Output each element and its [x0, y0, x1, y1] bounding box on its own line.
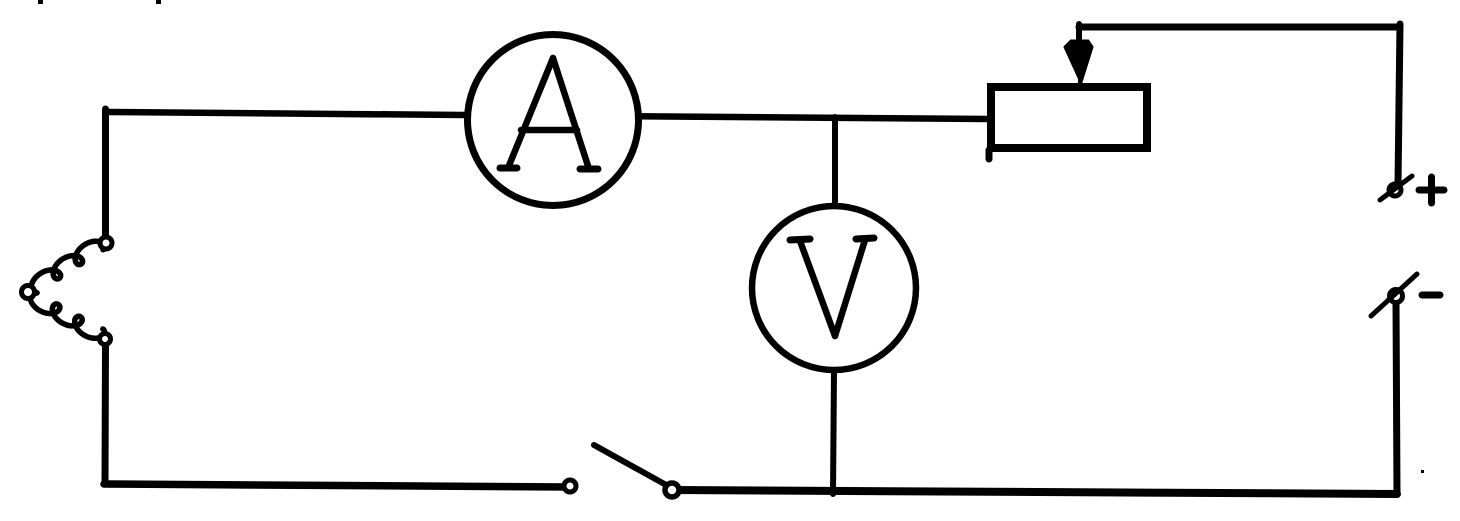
switch S1 right contact	[665, 483, 679, 497]
wire wiper top horizontal	[1079, 24, 1400, 31]
speck bottom right	[1421, 470, 1424, 473]
rheostat body corner overshoot	[986, 150, 993, 159]
speck top edge left	[38, 0, 43, 4]
wire left vertical upper	[102, 109, 109, 240]
terminal minus slash	[1371, 274, 1417, 316]
node terminal top of coil	[100, 237, 112, 249]
wire top horizontal from coil branch to rheostat	[106, 112, 989, 119]
wire bottom right segment from switch to right corner	[673, 490, 1397, 494]
switch S1 left contact	[564, 480, 576, 492]
rheostat wiper arrowhead	[1065, 41, 1092, 82]
inductor coil L1 lower winding	[30, 292, 105, 339]
wire voltmeter bottom branch	[833, 371, 834, 494]
rheostat R1 body	[991, 87, 1147, 148]
switch S1 blade	[594, 445, 668, 486]
terminal minus circle	[1390, 290, 1403, 303]
wire left vertical lower	[102, 344, 110, 484]
voltmeter letter V	[790, 238, 874, 336]
wire voltmeter top branch	[832, 117, 838, 205]
wire right vertical lower from minus terminal	[1396, 303, 1397, 493]
wire right vertical upper to plus terminal	[1398, 24, 1400, 184]
node terminal bottom of coil	[100, 334, 111, 345]
ammeter A circle	[468, 35, 639, 206]
terminal plus slash	[1380, 176, 1412, 200]
ammeter letter A	[500, 58, 598, 169]
terminal plus circle	[1389, 184, 1401, 196]
node terminal left of coil	[22, 286, 35, 299]
label plus sign	[1419, 177, 1444, 203]
label minus sign	[1422, 292, 1440, 299]
rheostat wiper arrow stem	[1076, 24, 1082, 44]
speck top edge mid	[156, 0, 161, 4]
rheostat wiper tip into body	[1078, 76, 1082, 88]
inductor coil L1 upper winding	[31, 241, 105, 293]
voltmeter V circle	[752, 206, 916, 370]
wire bottom left segment to switch	[104, 484, 569, 487]
